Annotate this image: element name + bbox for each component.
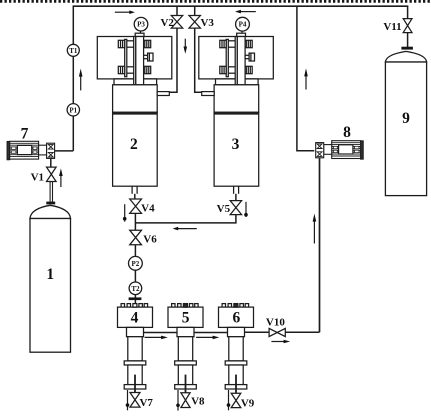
svg-text:V4: V4 [141,202,155,214]
flow arrow right vessel4 to vessel5 [145,336,162,338]
cylinder 9 valve fitting [401,47,413,50]
svg-text:P3: P3 [137,21,145,29]
svg-text:7: 7 [21,125,29,142]
valve V10 (horizontal) [269,328,285,336]
pump 8 (mirrored) [316,141,364,159]
dotted page border top [0,0,431,3]
pipe: crossover branch line [135,215,236,223]
svg-text:4: 4 [131,310,139,327]
pipe: pump7 down to V1 [50,158,52,167]
flow arrow up beside V1 [60,172,62,187]
pipe: V1 to cylinder1 double stem [49,181,51,202]
pipe: V10 to vessel6 neck [245,331,270,333]
svg-text:V3: V3 [200,17,214,29]
flow arrow right below V10 [271,341,284,343]
cylinder 1 valve fitting [46,202,55,205]
svg-text:9: 9 [402,110,410,127]
flow arrow down beside V8 [177,390,179,411]
gauge T2 [129,282,142,295]
pipe: pump8 head down to recirc line [319,158,321,332]
pipe: left riser T1/P1 [72,6,74,151]
pipe: V11 to cylinder9 [407,33,409,47]
svg-text:V9: V9 [241,397,255,409]
gauge P2 [129,256,143,270]
pipe: pump7 outlet to riser [55,150,74,152]
vessel 6 column [219,304,254,389]
flow arrow down beside V5 [245,202,247,217]
svg-text:V5: V5 [217,203,231,215]
svg-text:V11: V11 [383,21,401,33]
pipe: top header line [73,5,409,7]
vessel 3 side tab to V3 [202,92,215,96]
vessel 5 dip tube [185,375,187,393]
pump 7 [7,141,55,159]
pipe: riser to pump8 [297,6,314,151]
svg-text:1: 1 [46,266,54,283]
pipe: vessel4 to vessel5 neck line [144,332,178,334]
gauge P1 [67,104,79,116]
pipe: V3 drop line [194,6,196,16]
valve V7 [130,393,140,408]
flow arrow down beside V4 [124,204,126,221]
pipe: V4 to V6 with branch [134,213,136,230]
flow arrow left below crossover [178,228,197,230]
flow arrow down beside V7 [127,390,129,410]
valve V6 [130,230,142,245]
svg-text:V8: V8 [191,395,205,407]
pipe: V2 drop line [176,6,178,16]
svg-text:3: 3 [232,136,240,153]
flow arrow right vessel5 to vessel6 [196,336,213,338]
svg-text:5: 5 [182,310,190,327]
vessel 6 center port (dark) [234,304,238,308]
vessel 4 center port (open, feed line) [133,304,137,308]
vessel 2 side tab to V2 [157,92,169,96]
valve V1 [47,167,57,181]
pipe: vessel2 outlet to V4 [134,194,136,199]
vessel 4 column [118,304,153,389]
flow arrow up beside recirc riser [313,219,315,244]
vessel 4 feed flange tick [129,297,142,300]
vessel 5 center port (dark) [183,304,187,308]
pipe: V5 to vessel3 outlet [235,194,237,201]
valve V5 [230,201,241,215]
svg-text:P4: P4 [239,21,247,29]
valve V4 [130,199,142,213]
pipe: vessel5 to vessel6 neck line [194,332,228,334]
svg-text:V10: V10 [266,316,285,328]
cylinder 9 [385,51,426,195]
pipe: V6 to P2 to T2 to vessel4 [134,245,136,307]
valve V11 [403,19,412,33]
svg-text:V6: V6 [143,233,157,245]
pipe: recirc line corner to V10 [285,331,319,333]
flow arrow up beside left riser [80,72,82,90]
vessel 5 column [168,304,203,389]
gauge P4 [236,17,250,31]
flow arrow down between V2 V3 [184,39,186,48]
gauge T1 [67,44,79,56]
valve V9 [231,393,241,407]
svg-text:V2: V2 [160,17,174,29]
vessel 4 dip tube [134,375,136,393]
vessel 2 autoclave [97,31,172,194]
valve V3 [189,16,200,29]
svg-text:V1: V1 [31,171,44,183]
svg-text:P1: P1 [69,106,77,114]
valve V8 [181,393,190,408]
svg-text:8: 8 [343,124,351,141]
svg-text:P2: P2 [132,260,140,268]
svg-text:2: 2 [130,136,138,153]
vessel 3 autoclave [199,31,273,194]
cylinder 1 [30,205,71,352]
vessel 6 dip tube [235,375,237,393]
flow arrow left on header [240,11,256,13]
svg-text:V7: V7 [139,397,153,409]
svg-text:T2: T2 [131,285,140,293]
flow arrow right on header [115,11,130,13]
flow arrow up beside pump8 riser [305,72,307,90]
flow arrow down beside V9 [228,390,230,410]
svg-text:T1: T1 [69,47,78,55]
pipe: V11 drop from header [407,6,409,18]
valve V2 [171,16,182,29]
svg-text:6: 6 [233,310,241,327]
gauge P3 [134,17,148,31]
